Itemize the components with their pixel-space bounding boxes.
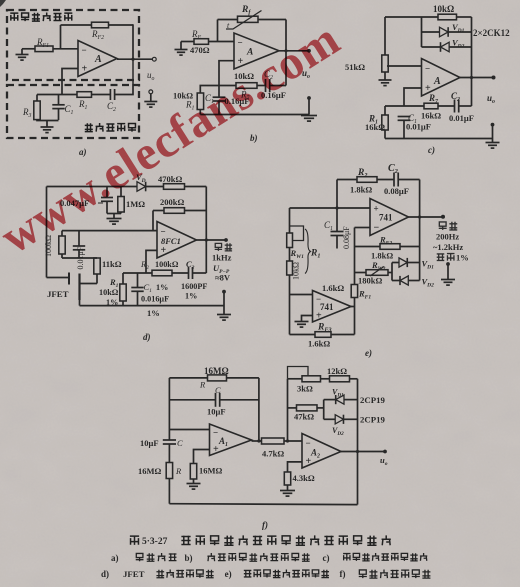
svg-text:−: − [425, 64, 430, 74]
svg-text:3kΩ: 3kΩ [297, 384, 313, 394]
svg-text:b): b) [185, 553, 193, 563]
inverting input wire (circuit d) [62, 230, 157, 232]
capacitor 0.01uF (circuit d left) [73, 231, 85, 270]
left vertical (circuit f) [168, 378, 170, 440]
svg-text:16kΩ: 16kΩ [365, 122, 385, 132]
noninverting input resistor 16M (circuit f) [187, 450, 223, 490]
svg-text:c): c) [323, 553, 330, 563]
wire R1 to C2 [92, 94, 111, 96]
op-amp 741 (circuit e upper) [370, 199, 409, 236]
svg-text:100kΩ: 100kΩ [155, 260, 179, 269]
svg-text:4.7kΩ: 4.7kΩ [262, 449, 284, 459]
diode VD2 2CP19 (circuit f) [324, 415, 386, 438]
brace and R1 label (circuit e) [305, 229, 320, 274]
svg-text:1600PF: 1600PF [181, 282, 207, 291]
op-amp 741 (circuit e lower) [313, 291, 352, 323]
svg-text:1%: 1% [456, 253, 469, 263]
output wire (circuit e) [409, 216, 444, 218]
resistor R1 10k 1% (circuit d) [99, 273, 126, 307]
resistor RF 470ohm (circuit b) [181, 29, 210, 55]
bottom wire (circuit d) [80, 305, 225, 307]
svg-text:d): d) [143, 332, 151, 342]
wire C2 up to output [115, 84, 133, 95]
circuit a dashed box: positive feedback network [7, 85, 139, 138]
svg-text:16MΩ: 16MΩ [138, 466, 162, 476]
wire to inverting input (circuit c) [387, 65, 422, 67]
op-amp A1 (circuit f) [210, 424, 252, 456]
feedback capacitor C 10uF (circuit f) [169, 385, 259, 417]
svg-text:0.01μF: 0.01μF [406, 122, 431, 132]
svg-text:470Ω: 470Ω [190, 45, 210, 55]
top feedback wire (circuit d) [47, 186, 138, 188]
ground (left of RF1) [16, 49, 29, 60]
inverting input wire (circuit f op-amp A1) [169, 429, 209, 431]
bottom wire to ground (circuit a) [37, 119, 59, 122]
svg-text:A: A [94, 54, 102, 65]
wire noninverting input left [219, 61, 234, 86]
svg-text:1%: 1% [185, 292, 197, 301]
svg-text:2×2CK12: 2×2CK12 [473, 28, 510, 38]
diode block vertical (circuit f) [323, 400, 325, 420]
svg-text:b): b) [250, 133, 258, 143]
wire from noninverting input down [62, 69, 78, 95]
right vertical (circuit e) [419, 180, 421, 281]
op-amp 8FC1 [157, 222, 197, 259]
label 正反馈网络 [85, 123, 136, 132]
svg-text:200kΩ: 200kΩ [160, 197, 184, 207]
capacitor C1 0.16uF (circuit b) [205, 86, 249, 115]
wire noninverting input down (circuit d) [146, 250, 157, 273]
svg-text:a): a) [79, 147, 87, 157]
svg-text:1.6kΩ: 1.6kΩ [322, 283, 344, 293]
left vertical wire (circuit c) [384, 17, 386, 55]
op-amp A (circuit a) [78, 41, 117, 77]
svg-text:f): f) [262, 520, 268, 530]
svg-text:5·3-27: 5·3-27 [142, 537, 168, 547]
resistor R2 100k 1% (circuit d) [140, 259, 179, 276]
ground terminal (circuit a, right) [144, 90, 157, 107]
right vertical A1 feedback (circuit f) [258, 378, 260, 441]
wire RF1 to inverting input [53, 48, 78, 50]
svg-text:R: R [199, 380, 206, 390]
svg-text:A: A [433, 76, 441, 87]
ground below 51k [379, 72, 392, 86]
svg-text:−: − [374, 222, 380, 233]
svg-text:+: + [161, 245, 167, 256]
corner scan smudge [0, 0, 6, 7]
output terminal uo [147, 57, 156, 82]
ground terminal (circuit b) [301, 96, 317, 121]
noninverting input ground (circuit e op-amp2) [295, 316, 313, 328]
output wire (circuit b) [279, 50, 309, 52]
svg-text:741: 741 [320, 302, 334, 312]
svg-text:2CP19: 2CP19 [360, 415, 386, 425]
svg-text:f): f) [340, 569, 346, 579]
svg-text:−: − [306, 438, 311, 448]
svg-text:10kΩ: 10kΩ [433, 4, 454, 14]
ground (circuit a bottom) [41, 121, 54, 133]
capacitor C2 (circuit a) [107, 89, 116, 113]
capacitor C2 0.08uF (circuit e) [384, 163, 420, 196]
feedback resistor 16M with R label (circuit f) [169, 366, 259, 390]
output labels 输出 200Hz ~1.2kHz 失真1% [433, 222, 469, 263]
3k resistor with bypass loop (circuit f) [288, 367, 321, 394]
svg-text:e): e) [365, 348, 372, 358]
resistor 100k (circuit d left) [44, 231, 65, 258]
right vertical (circuit f) [357, 379, 359, 505]
feedback vertical (circuit e) [354, 228, 356, 285]
diode VD1 2CP19 (circuit f) [324, 388, 386, 406]
A2 output wire (circuit f) [341, 451, 385, 453]
svg-text:0.08μF: 0.08μF [342, 226, 351, 249]
diode VD2 (circuit e) [392, 276, 434, 289]
resistor RF3 1.6k (circuit e) [290, 323, 355, 349]
svg-text:11kΩ: 11kΩ [102, 259, 122, 269]
svg-text:0.016μF: 0.016μF [141, 295, 169, 304]
47k resistor (circuit f) [288, 405, 324, 422]
svg-text:d): d) [101, 569, 109, 579]
caption line 1: 图5·3-27 采用运放组成的文氏电桥振荡电路 [130, 535, 391, 547]
JFET transistor [47, 273, 98, 306]
top row R2 C2 (circuit e) [337, 168, 394, 195]
resistor 200k (circuit d) [153, 197, 206, 213]
right vertical wire (circuit c) [471, 17, 473, 106]
ground terminal (circuit d) [217, 290, 231, 320]
svg-text:741: 741 [379, 213, 393, 223]
noninverting resistor 4.3k (circuit f) [280, 462, 315, 496]
inverting input wire (circuit e op-amp1) [355, 227, 371, 229]
svg-text:−: − [213, 428, 218, 438]
resistor R3 (circuit a) [22, 95, 40, 120]
svg-text:C: C [177, 438, 183, 448]
resistor R7 16k (circuit c) [421, 93, 441, 121]
wire chain down to op-amp2 (circuit e) [289, 275, 291, 335]
svg-text:12kΩ: 12kΩ [327, 366, 347, 376]
svg-text:R: R [175, 466, 182, 476]
resistor 1M (circuit d) [118, 187, 145, 214]
resistor RF2 1.8k (circuit e) [355, 235, 420, 261]
potentiometer RW2 180k (circuit e) [355, 260, 393, 286]
wire op-amp2 output (circuit e) [351, 306, 355, 308]
op-amp A (circuit c) [422, 59, 461, 97]
svg-text:10μF: 10μF [207, 407, 226, 417]
wien row wire (circuit a) [37, 94, 77, 96]
ground (circuit b input) [175, 42, 188, 56]
svg-text:47kΩ: 47kΩ [294, 412, 314, 422]
ground terminal (circuit e right) [441, 262, 455, 285]
resistor 51k (circuit c) [345, 55, 388, 72]
left vertical from top row (circuit e) [336, 180, 338, 209]
svg-text:1.8kΩ: 1.8kΩ [371, 251, 393, 261]
feedback vertical (circuit f) [287, 379, 289, 441]
capacitor 0.047uF (circuit d) [60, 187, 113, 214]
caption line 2: a) 基本电路 b) 热敏电阻稳幅振荡电路 c) 二极管稳幅振荡电路 [111, 553, 427, 563]
bottom wire (circuit b) [200, 114, 309, 116]
op-amp A (circuit b) [234, 33, 279, 69]
resistor R1 16k (circuit c) [365, 106, 388, 139]
wire to op-amp inverting input [209, 41, 235, 43]
resistor R1 (circuit a) [77, 92, 92, 111]
svg-text:16MΩ: 16MΩ [204, 366, 229, 376]
right vertical wire (circuit d) [205, 187, 207, 274]
svg-text:c): c) [428, 145, 435, 155]
circuit a dashed box: amplifier section [7, 10, 139, 80]
svg-text:e): e) [225, 569, 232, 579]
svg-text:≈8V: ≈8V [215, 273, 231, 283]
top wire with 10k resistor (circuit c) [385, 4, 472, 20]
series capacitor C 10uF (circuit f input) [140, 438, 183, 463]
svg-text:1.6kΩ: 1.6kΩ [308, 339, 330, 349]
12k resistor (circuit f) [321, 366, 358, 382]
svg-text:10μF: 10μF [140, 438, 159, 448]
svg-text:10kΩ: 10kΩ [292, 262, 301, 280]
output wire (circuit d) [197, 239, 227, 241]
svg-text:51kΩ: 51kΩ [345, 62, 365, 72]
left vertical wire (circuit d) [46, 187, 48, 278]
svg-text:16kΩ: 16kΩ [421, 111, 441, 121]
resistor RF1 1.6k (circuit e) [322, 283, 371, 301]
wien row wire (circuit c) [385, 105, 424, 107]
wire joining 100k, 0.01uF, 11k [62, 257, 97, 259]
output wire (circuit a) [117, 58, 153, 60]
svg-text:−: − [82, 45, 87, 55]
capacitor C2 0.01uF (circuit c) [438, 91, 474, 123]
svg-text:−: − [238, 37, 243, 47]
caption line 3: d) JFET稳幅振荡电路 e) 频率可调的振荡电路 f) 甚低频振荡电路 [101, 569, 430, 579]
wire 200k to inverting input [152, 211, 154, 231]
wien row wire (circuit d) [123, 272, 152, 274]
thermistor Rf (circuit b) [218, 5, 287, 30]
svg-text:~1.2kHz: ~1.2kHz [433, 242, 463, 252]
bottom wire (circuit c) [385, 138, 493, 140]
resistor RF1 [22, 37, 53, 52]
capacitor C1 (circuit a) [52, 95, 73, 121]
diode VD (circuit d) [136, 172, 146, 191]
inverting input wire (circuit e op-amp2) [290, 294, 313, 296]
ground below 0.047uF/1M [107, 214, 122, 225]
svg-text:−: − [161, 226, 166, 236]
svg-text:0.01μF: 0.01μF [449, 113, 474, 123]
svg-text:1kHz: 1kHz [212, 253, 232, 263]
wire Rf right down to output [285, 20, 287, 51]
rheostat RW1 (circuit e) [287, 226, 304, 260]
noninverting input wire (circuit e op-amp1) [290, 207, 371, 209]
left chain vertical (circuit e) [289, 208, 291, 233]
capacitor C1 0.01uF (circuit c) [398, 113, 431, 139]
series resistor R 16M (circuit f input) [138, 463, 182, 504]
svg-text:+: + [374, 203, 379, 213]
svg-text:0.08μF: 0.08μF [384, 186, 409, 196]
diode pair vertical (circuit e) [391, 263, 393, 281]
resistor 470k (circuit d) [146, 174, 207, 189]
diode branch vertical (circuit c) [421, 17, 423, 47]
svg-text:JFET: JFET [123, 569, 145, 579]
wire feedback tap up [60, 25, 62, 49]
label 基本放大环节 [10, 12, 72, 21]
resistor R7 10k (circuit b) [219, 71, 257, 102]
svg-text:1%: 1% [156, 283, 168, 292]
op-amp A2 (circuit f) [302, 434, 341, 469]
svg-text:JFET: JFET [47, 289, 69, 299]
output labels 输出 1kHz Up-p 8V [212, 243, 232, 282]
capacitor C2 0.16uF (circuit b) [257, 69, 286, 100]
svg-text:1MΩ: 1MΩ [126, 199, 145, 209]
svg-text:C: C [215, 385, 221, 395]
diode VD2 (circuit c) [422, 38, 472, 52]
capacitor C2 1600PF (circuit d) [172, 259, 207, 301]
svg-text:200Hz: 200Hz [436, 232, 459, 242]
svg-text:1%: 1% [147, 308, 160, 318]
resistor R1 10k (circuit b) [173, 86, 219, 115]
svg-text:2CP19: 2CP19 [360, 395, 386, 405]
svg-text:10kΩ: 10kΩ [99, 288, 119, 297]
capacitor C1 0.016uF 1% (circuit d) [131, 273, 169, 306]
svg-text:1.8kΩ: 1.8kΩ [350, 185, 372, 195]
output wire (circuit c) [460, 77, 494, 79]
ground terminal (circuit c) [486, 123, 500, 148]
resistor 11k (circuit d) [94, 258, 122, 284]
wire C2 right up to output vertical [285, 51, 287, 86]
svg-text:180kΩ: 180kΩ [358, 276, 382, 286]
resistor 10k (circuit e chain) [287, 248, 301, 281]
diode VD1 (circuit e) [392, 258, 434, 271]
svg-text:+: + [82, 64, 88, 75]
A1 output row with 4.7k (circuit f) [252, 438, 303, 459]
bottom wire (circuit f) [169, 503, 357, 506]
wire noninverting input down (circuit c) [404, 88, 422, 106]
svg-text:a): a) [111, 553, 119, 563]
resistor RF2 [61, 22, 134, 41]
svg-text:16MΩ: 16MΩ [199, 466, 223, 476]
wire Rf left down to inverting input [217, 20, 219, 42]
capacitor C1 0.08uF (circuit e) [324, 208, 351, 249]
svg-text:470kΩ: 470kΩ [158, 174, 182, 184]
svg-text:4.3kΩ: 4.3kΩ [293, 473, 315, 483]
svg-text:8FC1: 8FC1 [161, 236, 181, 246]
diode VD1 (circuit c) [422, 22, 472, 37]
wire RF2 to output node [132, 24, 134, 59]
